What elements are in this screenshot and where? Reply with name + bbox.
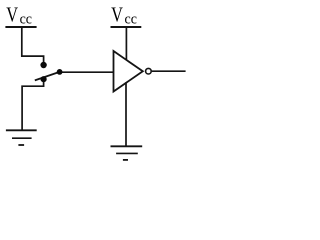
- svg-text:cc: cc: [20, 12, 32, 28]
- svg-text:V: V: [111, 3, 123, 27]
- svg-text:V: V: [6, 3, 18, 27]
- svg-text:cc: cc: [125, 12, 137, 28]
